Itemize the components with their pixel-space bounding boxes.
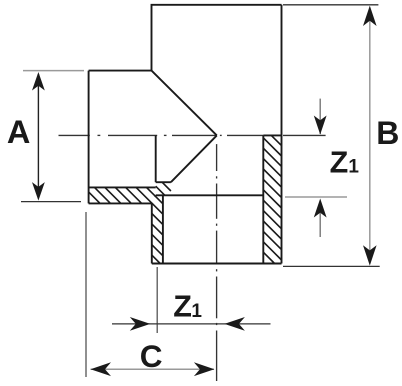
Z1 bottom right-pointing arrowhead <box>130 317 151 331</box>
dimension B arrow shaft <box>369 8 371 262</box>
svg-text:1: 1 <box>348 156 359 177</box>
svg-text:Z: Z <box>173 290 192 324</box>
dimension A down arrowhead <box>32 182 45 201</box>
chamfer lower diagonal <box>171 135 217 182</box>
Z1 right up arrowhead <box>314 199 327 218</box>
svg-text:C: C <box>140 338 163 374</box>
Z1 bottom extension line <box>156 267 158 333</box>
dimension A bottom extension line <box>21 201 81 203</box>
Z1 right lower extension line <box>285 196 347 198</box>
dimension B up arrowhead <box>363 6 377 26</box>
chamfer upper diagonal <box>152 71 217 136</box>
svg-text:Z: Z <box>330 145 349 179</box>
dimension C left arrowhead <box>91 362 112 376</box>
Z1 right lower shaft <box>319 213 321 237</box>
dimension B down arrowhead <box>363 245 377 265</box>
inner step hatch <box>156 182 171 195</box>
vertical centerline <box>216 144 218 381</box>
right wall inner edge <box>262 135 264 263</box>
branch wall bottom line <box>89 202 152 204</box>
svg-text:A: A <box>7 114 30 150</box>
socket mouth bottom line <box>152 263 282 265</box>
dimension A top extension line <box>23 70 84 72</box>
Z1 right upper shaft <box>319 99 321 134</box>
socket shoulder line <box>156 194 264 196</box>
dimension B bottom extension line <box>283 265 380 267</box>
svg-text:1: 1 <box>191 301 202 322</box>
dimension A up arrowhead <box>32 72 45 91</box>
right wall top seam <box>263 134 281 136</box>
body left edge <box>88 71 90 204</box>
left socket wall hatch <box>152 195 163 263</box>
inner step top line <box>156 181 171 183</box>
dimension A arrow shaft <box>37 74 39 198</box>
horizontal centerline <box>59 134 326 136</box>
dimension C right arrowhead <box>194 362 215 376</box>
left shoulder <box>89 70 152 72</box>
left branch wall hatch <box>89 187 156 203</box>
dimension C extension line <box>85 212 87 377</box>
right wall hatch <box>263 135 281 263</box>
Z1 right down arrowhead <box>314 116 327 135</box>
dimension B top extension line <box>283 4 378 6</box>
svg-text:B: B <box>376 115 399 151</box>
body right edge <box>281 5 283 264</box>
socket bore left line <box>162 195 164 263</box>
dimension C dimension line <box>91 368 215 370</box>
branch bore bottom line <box>89 186 156 188</box>
socket outer left line <box>151 203 153 263</box>
Z1 bottom left-pointing arrowhead <box>224 317 245 331</box>
bottom tube bore left line <box>155 135 157 182</box>
top socket outline <box>152 5 282 71</box>
Z1 bottom dimension line <box>112 323 271 325</box>
